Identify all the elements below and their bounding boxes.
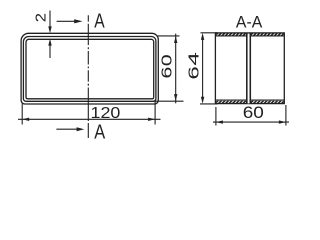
dimension 60 right: dimension line with arrows	[174, 34, 177, 104]
svg-text:A: A	[94, 10, 104, 32]
svg-text:A: A	[94, 120, 106, 143]
section direction arrow bottom	[56, 127, 84, 131]
dimension 64: dimension line with arrows	[201, 33, 204, 104]
svg-text:60: 60	[243, 103, 264, 121]
dimension 60 bottom: extension line right	[285, 105, 287, 126]
svg-text:2: 2	[33, 13, 49, 22]
dimension 2 arrow below	[48, 39, 51, 58]
dimension 120: extension line left	[21, 104, 23, 125]
dimension 64: extension line top	[201, 32, 218, 34]
hatching of top wall	[214, 32, 292, 37]
dimension 60 right: extension line top	[157, 35, 180, 37]
dimension 60 bottom: extension line left	[215, 107, 217, 126]
hatching of bottom wall	[214, 99, 296, 104]
section bottom wall inner line	[215, 99, 284, 101]
svg-text:120: 120	[91, 104, 121, 122]
section middle joint gap	[248, 34, 250, 104]
section top wall inner line	[215, 35, 284, 37]
svg-text:60: 60	[158, 54, 175, 79]
section middle joint double line	[246, 34, 248, 104]
svg-text:A-A: A-A	[236, 13, 262, 32]
section cut line A (dash-dot)	[87, 15, 89, 138]
dimension 60 right: extension line bottom	[153, 100, 184, 102]
front view middle contour	[23, 37, 156, 102]
dimension 120: dimension line with arrows	[18, 118, 161, 121]
dimension 60 bottom: dimension line with arrows	[213, 120, 289, 123]
front view inner contour	[26, 39, 154, 99]
dimension 120: extension line right	[154, 100, 156, 125]
dimension 2 arrow above	[48, 11, 51, 34]
section outer rectangle	[215, 33, 284, 104]
front view outer contour	[21, 33, 158, 104]
dimension 64: extension line bottom	[200, 103, 218, 105]
svg-text:64: 64	[186, 52, 202, 80]
section direction arrow top	[57, 19, 83, 23]
